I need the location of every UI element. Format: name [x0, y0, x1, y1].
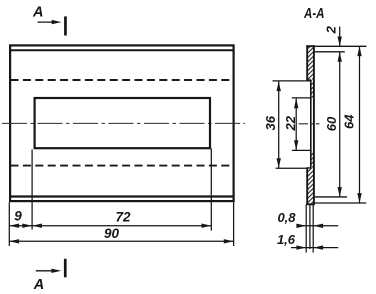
- svg-text:A: A: [33, 277, 44, 293]
- svg-text:72: 72: [115, 210, 131, 225]
- svg-text:60: 60: [324, 116, 339, 131]
- svg-text:22: 22: [283, 115, 298, 131]
- svg-text:0,8: 0,8: [277, 210, 296, 225]
- svg-text:1,6: 1,6: [277, 232, 296, 247]
- svg-text:64: 64: [342, 114, 357, 129]
- svg-text:A: A: [32, 5, 43, 21]
- svg-text:2: 2: [324, 25, 339, 34]
- svg-text:A-A: A-A: [303, 6, 324, 22]
- svg-text:9: 9: [14, 209, 22, 224]
- svg-text:36: 36: [263, 115, 278, 130]
- svg-text:90: 90: [104, 226, 120, 241]
